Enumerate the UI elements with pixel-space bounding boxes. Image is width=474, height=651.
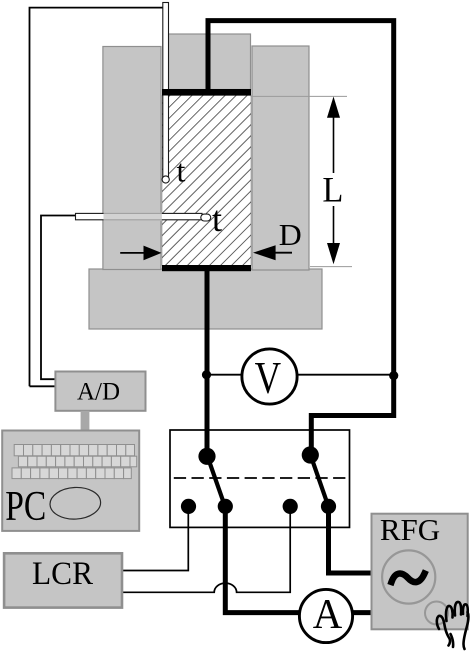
switch upper contact right — [302, 446, 319, 463]
upper piston block — [164, 34, 251, 90]
wire: top electrode lead (thick, up over to right side and down to switch) — [208, 21, 394, 455]
A/D to PC connector stub — [81, 411, 90, 430]
RFG knob circle — [425, 602, 448, 625]
furnace left column — [103, 47, 161, 270]
bottom electrode — [162, 265, 251, 271]
svg-text:t: t — [177, 153, 186, 189]
voltmeter V — [242, 349, 297, 404]
switch box — [170, 430, 350, 527]
furnace right column — [252, 46, 309, 270]
svg-text:D: D — [279, 217, 302, 252]
svg-text:PC: PC — [5, 484, 46, 530]
wire: voltmeter branch — [207, 374, 394, 376]
svg-text:L: L — [322, 170, 343, 210]
RFG sine output circle — [382, 550, 435, 603]
wire: contact2 to ammeter (thick) — [225, 507, 301, 613]
A/D converter box — [55, 372, 145, 411]
dimension arrow L (vertical, double headed, broken by label) — [327, 97, 340, 265]
PC box — [2, 431, 139, 531]
top electrode — [162, 89, 251, 96]
dimension arrow D right (points left at sample) — [253, 245, 292, 260]
svg-text:A: A — [313, 592, 343, 638]
ammeter A — [299, 589, 352, 642]
keyboard row 3 — [12, 468, 131, 479]
keyboard row 1 — [14, 445, 134, 456]
mouse ellipse — [49, 486, 101, 520]
dashed separator line — [174, 477, 347, 479]
thermocouple 2 (horizontal tube with bulb tip) — [76, 212, 211, 221]
dimension extension line bottom — [310, 266, 352, 268]
svg-text:V: V — [255, 352, 282, 403]
switch blade left — [208, 457, 226, 507]
keyboard row 2 — [18, 456, 136, 467]
LCR meter box — [4, 553, 122, 607]
junction node right — [389, 371, 398, 380]
switch blade right — [311, 455, 329, 506]
wire: contact4 to RFG (thick) — [329, 507, 373, 573]
RFG box — [372, 512, 468, 629]
switch lower contact 3 — [283, 499, 298, 514]
switch upper contact left — [198, 448, 215, 465]
svg-text:RFG: RFG — [380, 512, 440, 547]
svg-text:LCR: LCR — [32, 556, 93, 592]
switch lower contact 2 — [218, 499, 233, 514]
svg-text:A/D: A/D — [77, 379, 120, 406]
wire: bottom electrode lead (thick, down to switch) — [205, 268, 210, 456]
wire: ammeter to RFG (thick) — [352, 610, 372, 615]
switch lower contact 1 — [181, 499, 196, 514]
wire: contact1 to LCR (thin) — [122, 507, 188, 571]
furnace base block — [89, 269, 322, 329]
wire: thermocouple 2 lead (left thin wire) — [41, 216, 76, 380]
svg-text:t: t — [212, 199, 222, 239]
wire: contact3 to LCR with hop over thick wire — [122, 507, 290, 593]
hand cursor — [437, 602, 469, 649]
dimension extension line top — [251, 95, 348, 97]
switch lower contact 4 — [321, 499, 336, 514]
thermocouple 1 (vertical tube with bulb tip) — [162, 3, 169, 184]
sine symbol — [392, 573, 425, 582]
junction node left — [202, 370, 211, 379]
wire: thermocouple 1 lead (top-left thin wire) — [30, 8, 164, 387]
dimension arrow D left (points right at sample) — [120, 246, 161, 261]
sample (hatched) — [162, 96, 251, 266]
